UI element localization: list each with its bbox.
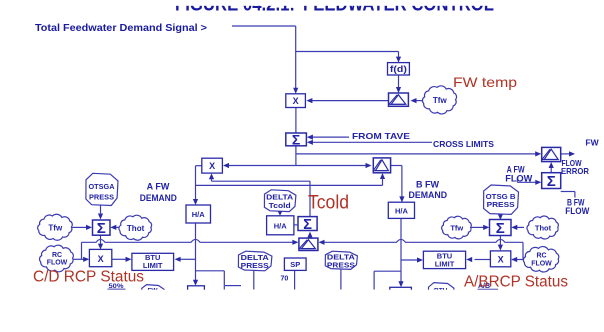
svg-text:PRESS: PRESS xyxy=(241,261,269,270)
svg-text:Σ: Σ xyxy=(292,131,300,147)
svg-text:B FW: B FW xyxy=(416,179,439,189)
svg-text:FLOW: FLOW xyxy=(47,260,68,267)
svg-text:FW temp: FW temp xyxy=(453,74,517,90)
svg-text:DEMAND: DEMAND xyxy=(409,190,448,200)
svg-text:CROSS LIMITS: CROSS LIMITS xyxy=(433,139,494,149)
svg-text:Thot: Thot xyxy=(127,224,145,233)
svg-text:RC: RC xyxy=(52,252,62,259)
svg-text:DEMAND: DEMAND xyxy=(140,193,177,203)
svg-text:X: X xyxy=(209,161,215,171)
svg-text:Tfw: Tfw xyxy=(450,224,463,233)
svg-text:ERROR: ERROR xyxy=(561,166,589,176)
svg-text:70: 70 xyxy=(281,275,289,282)
svg-text:Tcold: Tcold xyxy=(308,193,349,214)
svg-text:FLOW: FLOW xyxy=(565,206,589,216)
svg-text:PRESS: PRESS xyxy=(327,261,355,270)
svg-text:LIMIT: LIMIT xyxy=(435,259,455,268)
svg-text:PRESS: PRESS xyxy=(487,200,515,209)
svg-text:H/A: H/A xyxy=(192,210,206,219)
svg-text:Σ: Σ xyxy=(547,173,556,190)
svg-text:Σ: Σ xyxy=(97,220,106,237)
svg-text:FW: FW xyxy=(585,138,599,148)
svg-text:FLOW: FLOW xyxy=(531,260,552,267)
svg-text:f(d): f(d) xyxy=(390,64,407,74)
svg-text:C/D RCP Status: C/D RCP Status xyxy=(33,269,144,286)
svg-text:X: X xyxy=(498,254,504,264)
svg-text:Σ: Σ xyxy=(303,217,312,233)
svg-text:FLOW: FLOW xyxy=(505,174,533,184)
svg-text:A FW: A FW xyxy=(147,181,170,191)
svg-text:PRESS: PRESS xyxy=(89,193,114,202)
svg-text:X: X xyxy=(293,96,299,106)
svg-text:Total Feedwater Demand Signal: Total Feedwater Demand Signal > xyxy=(35,22,207,34)
svg-text:Σ: Σ xyxy=(496,220,505,237)
svg-text:SP: SP xyxy=(290,260,300,269)
svg-text:LIMIT: LIMIT xyxy=(143,261,163,270)
svg-text:RC: RC xyxy=(536,253,546,260)
svg-text:FROM TAVE: FROM TAVE xyxy=(352,131,410,141)
svg-text:Thot: Thot xyxy=(535,224,552,233)
svg-text:Tcold: Tcold xyxy=(269,201,291,210)
svg-text:X: X xyxy=(98,254,104,264)
svg-text:Tfw: Tfw xyxy=(48,223,63,232)
svg-text:A/BRCP Status: A/BRCP Status xyxy=(464,274,568,291)
svg-text:OTSGA: OTSGA xyxy=(89,182,116,191)
svg-text:H/A: H/A xyxy=(395,207,409,216)
svg-text:H/A: H/A xyxy=(274,221,288,230)
svg-text:Tfw: Tfw xyxy=(433,96,448,105)
